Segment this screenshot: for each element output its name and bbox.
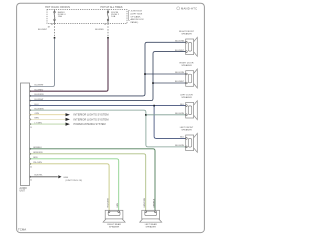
svg-text:BLU/WHT: BLU/WHT bbox=[35, 99, 45, 101]
svg-text:BLU: BLU bbox=[180, 104, 184, 106]
svg-text:HOT AT ALL TIMES: HOT AT ALL TIMES bbox=[101, 6, 123, 9]
svg-text:1J: 1J bbox=[30, 127, 32, 129]
svg-text:BLU/WHT: BLU/WHT bbox=[38, 29, 48, 31]
svg-text:BLU/ORN: BLU/ORN bbox=[175, 72, 184, 74]
svg-text:BLU/GRN: BLU/GRN bbox=[35, 108, 44, 110]
left front speaker bbox=[175, 127, 197, 152]
svg-text:BLU: BLU bbox=[180, 137, 184, 139]
svg-text:BLU/WHT: BLU/WHT bbox=[175, 81, 185, 83]
svg-text:GRN/ORN: GRN/ORN bbox=[33, 152, 43, 154]
wire GRN/ORN to left rear speaker left terminal bbox=[30, 154, 146, 211]
svg-text:GRN/BLK: GRN/BLK bbox=[33, 147, 42, 149]
svg-text:4J: 4J bbox=[30, 180, 32, 182]
svg-text:BLU/GRN: BLU/GRN bbox=[175, 145, 184, 147]
left rear speaker (bottom right) bbox=[140, 197, 162, 228]
svg-text:INTERIOR LIGHTS SYSTEM: INTERIOR LIGHTS SYSTEM bbox=[74, 119, 109, 121]
fuse ROOM 10A bbox=[107, 10, 109, 24]
wire BLK/YEL to ground bbox=[30, 176, 58, 178]
splice dot left bbox=[54, 37, 56, 39]
junction dot right door + bbox=[144, 73, 146, 75]
joint box (dashed) bbox=[47, 10, 127, 24]
svg-text:GRN: GRN bbox=[117, 203, 119, 208]
wire branch to right door speaker + bbox=[145, 73, 186, 75]
svg-text:SPEAKER: SPEAKER bbox=[181, 96, 192, 99]
svg-text:BRN: BRN bbox=[35, 118, 40, 120]
svg-text:OF DASH,: OF DASH, bbox=[131, 15, 142, 18]
svg-text:YEL/GRN: YEL/GRN bbox=[107, 198, 109, 208]
wire BLU/WHT dashed segment from left fuse bbox=[54, 24, 56, 37]
svg-text:BLU/GRN: BLU/GRN bbox=[175, 113, 184, 115]
svg-text:GRN: GRN bbox=[33, 157, 38, 159]
right front speaker bbox=[175, 31, 197, 56]
svg-text:SPEAKER: SPEAKER bbox=[181, 129, 192, 132]
svg-text:BLU/ORN: BLU/ORN bbox=[175, 41, 184, 43]
svg-text:BLU: BLU bbox=[35, 104, 39, 106]
svg-text:(LEFT SIDE: (LEFT SIDE bbox=[131, 14, 143, 16]
svg-text:LT GRN: LT GRN bbox=[35, 122, 43, 124]
svg-text:10A: 10A bbox=[111, 15, 115, 18]
svg-text:BLU/RED: BLU/RED bbox=[35, 89, 44, 91]
svg-text:INTERIOR LIGHTS SYSTEM: INTERIOR LIGHTS SYSTEM bbox=[74, 115, 109, 117]
junction dot left front + bbox=[153, 105, 155, 107]
svg-text:JOINT BOX: JOINT BOX bbox=[131, 11, 143, 13]
joint box label text bbox=[131, 11, 145, 25]
svg-text:BLK/YEL: BLK/YEL bbox=[35, 174, 44, 176]
wire YEL/GRN to right rear speaker left terminal bbox=[30, 164, 110, 211]
svg-text:PANEL): PANEL) bbox=[131, 21, 139, 24]
wire BLU/ORN row3 to right front speaker bbox=[30, 42, 186, 96]
right door speaker bbox=[175, 63, 197, 88]
wire BRN row8 to interior lights bbox=[30, 118, 66, 120]
svg-text:SPEAKER: SPEAKER bbox=[181, 64, 192, 67]
arrow row7 bbox=[66, 113, 70, 116]
svg-text:UNIT: UNIT bbox=[20, 191, 26, 193]
svg-text:(JUNCTION 14 OF): (JUNCTION 14 OF) bbox=[66, 180, 83, 182]
svg-text:SPEAKER: SPEAKER bbox=[146, 225, 157, 228]
wire BLU/GRN row6 bbox=[30, 110, 186, 147]
svg-text:MAND-HTC: MAND-HTC bbox=[181, 7, 197, 11]
wire GRN/BLK to left rear speaker right terminal bbox=[30, 149, 155, 211]
wire BLU/WHT vertical to audio unit pin 1 bbox=[30, 39, 55, 87]
svg-text:15A: 15A bbox=[58, 15, 62, 18]
audio unit label bbox=[20, 187, 27, 193]
arrow row8 bbox=[66, 118, 70, 121]
svg-text:ABOVE KICK: ABOVE KICK bbox=[131, 18, 145, 21]
ground G304 bbox=[58, 175, 61, 178]
svg-text:SPEAKER: SPEAKER bbox=[109, 225, 120, 228]
svg-text:41: 41 bbox=[30, 167, 32, 169]
svg-text:BLU/RED: BLU/RED bbox=[95, 29, 104, 31]
svg-text:TCMA: TCMA bbox=[18, 227, 26, 231]
junction dot left door - bbox=[145, 114, 147, 116]
svg-text:POWER ANTENNA SYSTEM: POWER ANTENNA SYSTEM bbox=[74, 123, 106, 126]
svg-text:GRN/BLK: GRN/BLK bbox=[154, 198, 156, 208]
right rear speaker (bottom left) bbox=[103, 198, 125, 228]
svg-text:YEL/GRN: YEL/GRN bbox=[33, 162, 42, 164]
wire GRN to right rear speaker right terminal bbox=[30, 159, 119, 211]
wire BLU/WHT row4 to right front speaker - bbox=[30, 52, 186, 101]
wire BLU row5 to left door speaker bbox=[30, 105, 186, 107]
wire BLU/RED vertical+horizontal to audio unit pin 2 bbox=[30, 39, 108, 92]
wire BLU vertical to left front speaker + bbox=[154, 106, 186, 139]
svg-text:GRN/ORN: GRN/ORN bbox=[144, 197, 146, 207]
svg-text:ORN: ORN bbox=[35, 113, 40, 115]
svg-text:BLU/ORN: BLU/ORN bbox=[35, 94, 44, 96]
wire ORN row7 to interior lights bbox=[30, 114, 66, 116]
watermark logo top right bbox=[177, 7, 198, 11]
pin ticks on connector rows bbox=[30, 86, 31, 178]
left door speaker bbox=[175, 94, 197, 119]
splice dot right bbox=[107, 37, 109, 39]
svg-text:SPEAKER: SPEAKER bbox=[181, 33, 192, 36]
svg-text:BLU/WHT: BLU/WHT bbox=[35, 85, 45, 87]
audio unit connector box bbox=[21, 83, 30, 186]
wire branch to right door speaker - bbox=[153, 82, 186, 84]
wire branch to left door speaker - bbox=[146, 114, 186, 116]
fuse RADIO 15A bbox=[54, 10, 56, 24]
svg-text:HOT IN ACC OR RUN: HOT IN ACC OR RUN bbox=[45, 6, 70, 9]
junction dot right door - bbox=[152, 82, 154, 84]
wire LT GRN row9 to power antenna bbox=[30, 123, 66, 125]
svg-text:BLU/WHT: BLU/WHT bbox=[175, 50, 185, 52]
svg-text:AUDIO: AUDIO bbox=[20, 187, 27, 190]
page frame bbox=[17, 3, 205, 232]
arrow row9 bbox=[66, 123, 70, 126]
joint box label bracket bbox=[129, 10, 130, 20]
wire BLU/RED dashed segment from right fuse bbox=[107, 24, 109, 37]
